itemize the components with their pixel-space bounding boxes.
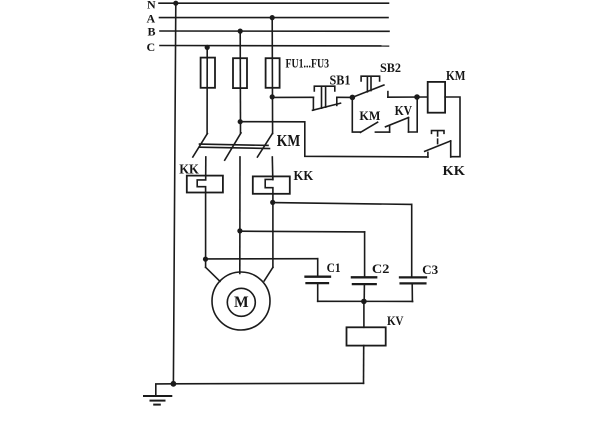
svg-text:C1: C1	[327, 261, 341, 275]
junction N tap	[173, 1, 178, 6]
svg-text:A: A	[147, 12, 156, 26]
wire latch branch down from node	[352, 97, 360, 132]
junction phase2 tap to C2	[237, 228, 242, 233]
capacitor C1 bottom lead	[317, 283, 319, 301]
junction C tap	[205, 45, 210, 50]
wire KV contact up to node	[409, 97, 418, 132]
fuse FU2	[233, 58, 247, 88]
svg-text:KK: KK	[294, 168, 314, 183]
thermal relay KK1 heater box	[187, 176, 223, 193]
button SB2 right terminal tick	[387, 92, 389, 98]
wire coil right to down	[445, 97, 460, 157]
coil KV	[347, 327, 386, 345]
motor M outer circle	[212, 272, 270, 330]
button SB1 plunger shaft	[322, 86, 326, 108]
button SB1 cap bracket	[314, 86, 335, 91]
junction A tap	[270, 15, 275, 20]
ground stub	[156, 384, 174, 396]
thermal relay KK2 heater box	[253, 176, 290, 193]
contact KK thermal NC right terminal	[450, 141, 452, 157]
svg-text:C2: C2	[372, 262, 390, 276]
junction control feed	[270, 94, 275, 99]
wire KV coil bottom lead	[363, 346, 365, 384]
wire phase A drop	[271, 18, 273, 134]
svg-text:M: M	[234, 294, 249, 311]
wire motor lead 3 diagonal	[264, 267, 273, 281]
bus B line	[160, 30, 389, 32]
capacitor C3 bottom plate	[401, 282, 426, 284]
svg-text:KM: KM	[277, 131, 301, 150]
svg-text:KM: KM	[446, 68, 466, 83]
capacitor C3 top plate	[400, 276, 426, 278]
svg-text:SB2: SB2	[380, 60, 401, 75]
svg-text:FU1...FU3: FU1...FU3	[286, 55, 330, 70]
capacitor C3 top lead	[411, 204, 413, 277]
svg-text:SB1: SB1	[330, 72, 351, 87]
contactor KM linkage bar lower	[200, 147, 270, 148]
junction ground node	[171, 381, 177, 387]
ground bar 3	[154, 404, 160, 406]
button SB2 blade	[352, 85, 384, 97]
button SB2 cap bracket	[361, 76, 380, 81]
bus N line	[159, 2, 389, 4]
svg-text:KV: KV	[395, 103, 413, 118]
wire SB1 to node	[337, 96, 353, 98]
wire tap phase3 to C3 lead	[273, 203, 412, 205]
fuse FU3	[266, 58, 280, 88]
motor M inner circle	[227, 288, 255, 316]
bus C line	[160, 45, 389, 47]
button SB1 left terminal	[312, 97, 314, 110]
wire capacitor bottom bus	[318, 300, 413, 302]
fuse FU1	[201, 58, 215, 88]
junction phase1 tap to C1	[203, 257, 208, 262]
wire tap phase1 to C1 lead	[206, 258, 318, 260]
svg-text:N: N	[147, 0, 156, 11]
contact KK thermal NC left tick	[427, 152, 429, 157]
contact KK thermal NC blade	[425, 141, 451, 151]
coil KM	[428, 82, 445, 113]
ground bar 2	[151, 400, 165, 402]
wire KV coil top lead	[363, 301, 365, 327]
capacitor C3 bottom lead	[411, 283, 413, 301]
contact KV left tick	[389, 126, 391, 132]
wire control return to phase B	[240, 122, 428, 157]
wire tap phase2 to C2 lead	[240, 230, 365, 233]
wire SB2 to coil	[388, 96, 428, 98]
wire motor lead 1 diagonal	[206, 267, 220, 281]
capacitor C1 bottom plate	[307, 282, 329, 284]
button SB1 right terminal	[336, 97, 338, 105]
junction phase3 tap to C3	[270, 200, 275, 205]
capacitor C2 bottom plate	[353, 283, 376, 285]
ground bar 1	[144, 395, 171, 397]
wire phase2 below contact	[239, 157, 241, 274]
svg-text:KK: KK	[179, 161, 199, 176]
button SB2 plunger shaft	[367, 76, 371, 92]
wire phase3 below contact	[271, 157, 274, 180]
svg-text:KM: KM	[359, 108, 380, 123]
junction phase B control tap	[238, 119, 243, 124]
svg-text:KV: KV	[387, 313, 404, 328]
contact KK thermal actuator bracket	[432, 131, 445, 134]
thermal relay KK2 heater jog	[265, 176, 273, 267]
capacitor C2 bottom lead	[363, 284, 365, 301]
contactor KM linkage bar upper	[200, 144, 269, 145]
contactor KM main contact blade 3	[257, 134, 272, 158]
svg-text:C3: C3	[422, 263, 438, 277]
junction node before coil	[414, 94, 420, 100]
wire phase C drop	[206, 47, 208, 133]
capacitor C2 top plate	[352, 276, 376, 278]
bus A line	[160, 17, 389, 19]
junction B tap	[238, 29, 243, 34]
junction capacitor bus to KV coil	[361, 299, 367, 305]
button SB1 blade	[313, 103, 341, 110]
capacitor C1 top plate	[306, 276, 331, 278]
wire phase B drop	[239, 31, 241, 133]
contact KV right terminal	[408, 118, 410, 132]
contact KM aux blade	[360, 122, 377, 132]
svg-text:B: B	[148, 25, 156, 39]
wire control feed from phase A	[272, 96, 313, 98]
wire bottom return to ground	[173, 382, 363, 385]
svg-text:C: C	[147, 40, 156, 54]
capacitor C2 top lead	[364, 232, 366, 277]
contact KV blade	[386, 118, 409, 127]
wire between KM aux and KV contact	[375, 131, 389, 133]
wire neutral vertical N to ground	[173, 3, 175, 384]
wire phase1 below contact	[205, 157, 207, 176]
contactor KM main contact blade 1	[193, 134, 208, 158]
junction node after SB1	[350, 95, 356, 101]
svg-text:KK: KK	[443, 163, 466, 178]
thermal relay KK1 heater jog	[197, 176, 206, 267]
capacitor C1 lead corner	[317, 259, 319, 277]
contactor KM main contact blade 2	[225, 133, 241, 160]
contact KK thermal actuator dashed link	[437, 131, 439, 144]
